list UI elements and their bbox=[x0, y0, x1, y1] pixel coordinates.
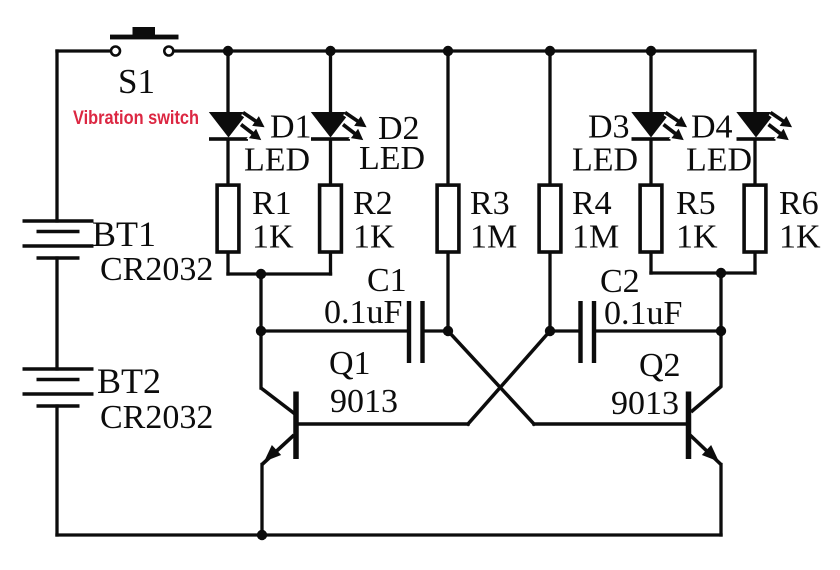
wire R1-R2 bottom horizontal bbox=[228, 272, 331, 275]
wire Q2 collector vertical upper bbox=[719, 273, 722, 331]
svg-text:1K: 1K bbox=[779, 219, 821, 256]
svg-text:BT1: BT1 bbox=[92, 214, 156, 254]
svg-text:R2: R2 bbox=[353, 185, 393, 222]
svg-text:BT2: BT2 bbox=[97, 361, 161, 401]
wire R3 top drop bbox=[446, 51, 449, 184]
svg-text:1M: 1M bbox=[470, 219, 517, 256]
resistor R3 bbox=[437, 185, 459, 252]
wire left rail lower (BT2 to bottom corner) bbox=[55, 406, 58, 535]
svg-text:D3: D3 bbox=[588, 109, 630, 146]
node C2 left / R4 bbox=[545, 326, 555, 336]
svg-text:Q1: Q1 bbox=[329, 345, 371, 382]
svg-text:R1: R1 bbox=[252, 185, 292, 222]
LED D4 bbox=[736, 112, 795, 145]
wire D3 cathode to R5 bbox=[649, 140, 652, 184]
svg-text:R5: R5 bbox=[676, 185, 716, 222]
wire D3 anode drop bbox=[649, 51, 652, 113]
svg-text:1K: 1K bbox=[676, 219, 718, 256]
wire bottom rail bbox=[57, 533, 721, 536]
svg-text:9013: 9013 bbox=[330, 383, 398, 420]
wire Q1 emitter vertical bbox=[260, 465, 263, 536]
battery BT1 bbox=[23, 221, 94, 258]
resistor R5 bbox=[640, 185, 662, 252]
svg-text:D4: D4 bbox=[691, 109, 733, 146]
wire R4 bottom to C2 node bbox=[548, 253, 551, 331]
wire C1 left horizontal bbox=[261, 329, 406, 332]
svg-text:R3: R3 bbox=[470, 185, 510, 222]
node top R3 bbox=[443, 46, 453, 56]
node C2 right / Q2 collector bbox=[716, 326, 726, 336]
LED D2 bbox=[311, 112, 370, 145]
wire D2 cathode to R2 bbox=[329, 140, 332, 184]
wire R4 top drop bbox=[548, 51, 551, 184]
resistor R6 bbox=[744, 185, 766, 252]
svg-text:0.1uF: 0.1uF bbox=[604, 295, 682, 332]
wire R2 bottom stub bbox=[329, 253, 332, 274]
wire node to Q1 collector vertical upper bbox=[259, 274, 262, 331]
wire R5-R6 bottom horizontal bbox=[651, 271, 755, 274]
svg-text:S1: S1 bbox=[118, 62, 155, 101]
wire diagonal C2 node to Q1 base bbox=[468, 331, 550, 424]
capacitor C2 bbox=[581, 301, 595, 363]
node top R4 bbox=[545, 46, 555, 56]
svg-text:0.1uF: 0.1uF bbox=[324, 294, 402, 331]
wire D1 anode drop bbox=[226, 51, 229, 113]
svg-text:LED: LED bbox=[572, 142, 638, 179]
node Q1 emitter / bottom rail bbox=[257, 530, 267, 540]
wire Q1 collector vertical lower bbox=[259, 331, 262, 388]
wire top from S1 to top-right corner bbox=[173, 49, 755, 52]
wire C1 right stub bbox=[425, 329, 448, 332]
wire R3 bottom to C1 node bbox=[446, 253, 449, 331]
svg-text:1K: 1K bbox=[252, 219, 294, 256]
svg-text:1M: 1M bbox=[572, 219, 619, 256]
wire top-left from left rail to S1 bbox=[57, 49, 111, 52]
svg-text:Vibration switch: Vibration switch bbox=[73, 107, 199, 129]
node Q1 collector / C1 left bbox=[256, 326, 266, 336]
LED D3 bbox=[631, 112, 690, 145]
wire left rail upper (corner to BT1) bbox=[55, 51, 58, 221]
node top D2 bbox=[325, 46, 335, 56]
wire D4 anode drop from top-right corner bbox=[753, 51, 756, 113]
LED D1 bbox=[209, 112, 268, 145]
transistor Q2 bbox=[689, 387, 724, 467]
node R5R6 junction bbox=[716, 268, 726, 278]
wire between BT1 and BT2 bbox=[55, 258, 58, 369]
wire R5 bottom stub bbox=[649, 253, 652, 273]
wire D2 anode drop bbox=[329, 51, 332, 113]
wire D4 cathode to R6 bbox=[753, 140, 756, 184]
svg-text:R6: R6 bbox=[779, 185, 819, 222]
node C1 right / R3 bbox=[443, 326, 453, 336]
svg-text:9013: 9013 bbox=[611, 385, 679, 422]
node top D1 bbox=[223, 46, 233, 56]
wire C2 right horizontal bbox=[596, 329, 721, 332]
capacitor C1 bbox=[409, 301, 423, 363]
svg-text:LED: LED bbox=[244, 142, 310, 179]
resistor R4 bbox=[539, 185, 561, 252]
svg-text:LED: LED bbox=[359, 140, 425, 177]
node R1R2 junction bbox=[256, 269, 266, 279]
svg-text:1K: 1K bbox=[353, 219, 395, 256]
wire D1 cathode to R1 bbox=[226, 140, 229, 184]
svg-text:CR2032: CR2032 bbox=[100, 251, 213, 288]
wire Q1 base lead horizontal bbox=[298, 422, 468, 426]
svg-text:Q2: Q2 bbox=[639, 347, 681, 384]
svg-text:LED: LED bbox=[686, 142, 752, 179]
svg-text:R4: R4 bbox=[572, 185, 612, 222]
wire diagonal C1 node to Q2 base bbox=[448, 331, 534, 424]
switch S1 bbox=[110, 27, 179, 56]
svg-text:D1: D1 bbox=[270, 109, 312, 146]
wire Q2 base lead horizontal bbox=[534, 422, 687, 426]
wire Q2 collector vertical lower bbox=[719, 331, 722, 386]
wire C2 left stub bbox=[550, 329, 578, 332]
wire Q2 emitter vertical bbox=[719, 465, 722, 536]
svg-text:CR2032: CR2032 bbox=[100, 399, 213, 436]
node top D3 bbox=[646, 46, 656, 56]
resistor R1 bbox=[217, 185, 239, 252]
resistor R2 bbox=[320, 185, 342, 252]
wire R1 bottom stub bbox=[226, 253, 229, 274]
wire R6 bottom stub bbox=[753, 253, 756, 273]
battery BT2 bbox=[23, 369, 94, 406]
transistor Q1 bbox=[259, 388, 296, 467]
